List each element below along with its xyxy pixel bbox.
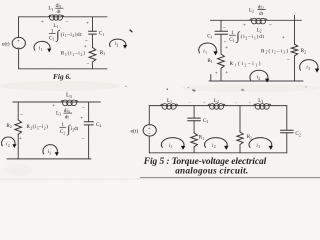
capacitor C1 B <box>215 31 228 34</box>
svg-text:Fig 6.: Fig 6. <box>53 72 71 81</box>
inductor L2 D <box>208 104 225 110</box>
capacitor C2 C <box>84 122 93 125</box>
svg-text:+: + <box>86 20 89 26</box>
svg-text:−: − <box>20 113 23 119</box>
wire branch A upper <box>92 17 94 31</box>
wire left lower A <box>18 49 20 69</box>
svg-text:−: − <box>65 19 68 25</box>
resistor R2 D <box>237 132 243 145</box>
speckle mark <box>130 30 133 33</box>
capacitor C1 D <box>188 118 201 121</box>
wire right C upper <box>88 102 90 121</box>
svg-text:+: + <box>19 136 22 142</box>
inductor L1 A <box>49 15 64 20</box>
svg-text:+: + <box>17 39 20 45</box>
svg-text:+: + <box>243 22 246 28</box>
svg-text:2: 2 <box>214 145 216 149</box>
svg-text:+: + <box>215 70 218 76</box>
svg-text:−: − <box>86 62 89 68</box>
svg-text:1: 1 <box>205 51 207 55</box>
resistor R2 C <box>15 120 22 134</box>
svg-text:2: 2 <box>8 144 10 148</box>
svg-text:dt: dt <box>65 114 70 120</box>
loop arrow i3 C <box>43 145 59 156</box>
loop arrow i1 D <box>161 138 185 150</box>
svg-text:e(t): e(t) <box>2 41 10 48</box>
label 1/C1 integral B <box>229 29 265 43</box>
svg-text:−: − <box>269 22 272 28</box>
wire right D upper <box>286 106 288 130</box>
wire bottom D <box>149 152 286 154</box>
loop arrow i3 D <box>249 138 273 150</box>
svg-text:e(t): e(t) <box>131 128 139 135</box>
svg-text:+: + <box>41 19 44 25</box>
wire branch1 D upper <box>193 106 195 118</box>
svg-text:−: − <box>82 105 85 111</box>
svg-text:+: + <box>225 70 228 76</box>
label L3 di3/dt C <box>56 108 72 120</box>
svg-text:∫: ∫ <box>55 28 60 42</box>
wire left C lower <box>17 134 19 159</box>
wire top A <box>19 16 108 18</box>
resistor R1 D <box>191 133 198 147</box>
speckles <box>125 86 306 92</box>
wire right lower B <box>294 56 296 81</box>
svg-text:1: 1 <box>171 145 173 149</box>
svg-text:+: + <box>80 116 83 122</box>
svg-text:−: − <box>287 57 290 63</box>
wire top D <box>149 105 286 107</box>
wire branch A mid <box>92 34 94 47</box>
rule under caption <box>140 177 320 179</box>
wire left D upper <box>148 106 150 125</box>
wire right D lower <box>286 133 288 153</box>
loop arrow i2 D <box>205 138 229 150</box>
svg-text:dt: dt <box>57 9 62 15</box>
paper shading <box>0 81 320 180</box>
svg-text:i3dt: i3dt <box>71 126 79 132</box>
svg-text:2: 2 <box>259 77 261 81</box>
loop arrow i2 A <box>110 39 128 49</box>
stub bottom-left B <box>210 75 212 81</box>
loop arrow i1 B <box>199 43 218 55</box>
resistor R1 A <box>89 48 96 63</box>
svg-text:−: − <box>17 45 20 51</box>
svg-text:+: + <box>282 35 285 41</box>
wire right B <box>294 15 296 44</box>
wire branch1 D mid <box>193 121 195 133</box>
resistor R2 B <box>291 44 297 56</box>
loop arrow i2 C <box>2 137 17 148</box>
svg-text:dt: dt <box>259 11 264 17</box>
capacitor C1 A <box>89 31 97 34</box>
capacitor C2 D <box>281 130 294 133</box>
inductor L1 D <box>160 104 177 110</box>
svg-text:3: 3 <box>50 151 52 155</box>
svg-text:2: 2 <box>117 44 119 48</box>
svg-text:−: − <box>223 26 226 32</box>
wire left D lower <box>148 136 150 153</box>
svg-text:+: + <box>84 44 87 50</box>
svg-text:(i2–i1)dt: (i2–i1)dt <box>241 33 265 40</box>
svg-text:−: − <box>81 136 84 142</box>
svg-text:L3: L3 <box>66 92 72 98</box>
loop arrow i2 B <box>250 70 269 82</box>
inductor L3 C <box>61 100 78 106</box>
label 1/C1 integral A <box>49 28 82 42</box>
source e(t) A <box>12 37 25 51</box>
label L1 di1/dt A <box>48 3 63 15</box>
wire left A <box>18 17 20 38</box>
wire branch B mid <box>220 34 222 54</box>
wire branch B lower <box>220 68 222 81</box>
wire bottom C <box>7 158 91 160</box>
label L2 di2/dt B <box>249 4 266 16</box>
svg-text:1: 1 <box>41 48 43 52</box>
svg-text:+: + <box>225 45 228 51</box>
wire branch B upper <box>220 20 222 31</box>
loop arrow i1 A <box>34 41 51 52</box>
svg-text:analogous circuit.: analogous circuit. <box>175 165 248 175</box>
source e(t) D <box>143 125 156 138</box>
wire branch1 D lower <box>193 147 195 153</box>
inductor L2 B <box>250 18 267 24</box>
wire branch2 D lower <box>239 145 241 153</box>
loop arrow i3 B <box>300 60 320 73</box>
svg-text:3: 3 <box>258 145 260 149</box>
wire bottom B <box>209 80 303 82</box>
label 1/C2 integral C <box>60 122 79 135</box>
wire top C <box>13 101 101 103</box>
wire bottom A <box>19 68 108 70</box>
svg-text:+: + <box>52 103 55 109</box>
svg-text:(i1–i2)dt: (i1–i2)dt <box>61 31 83 38</box>
inductor L3 D <box>254 104 271 110</box>
wire branch2 D upper <box>239 106 241 132</box>
resistor R1 B <box>218 54 225 68</box>
wire left C upper <box>17 102 19 120</box>
wire right C lower <box>88 125 90 159</box>
wire branch A lower <box>92 62 94 69</box>
wire top B <box>210 19 301 21</box>
svg-text:3: 3 <box>308 67 310 71</box>
